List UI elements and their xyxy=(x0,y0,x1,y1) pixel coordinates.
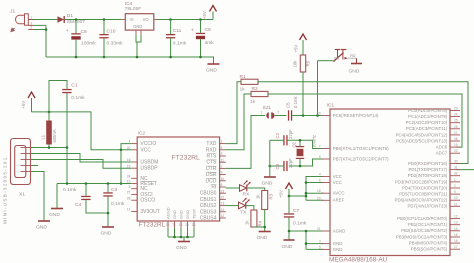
resistor R2 1k xyxy=(250,86,268,105)
svg-text:P$2: P$2 xyxy=(350,54,356,58)
svg-text:28: 28 xyxy=(127,196,131,200)
svg-text:25: 25 xyxy=(166,223,170,227)
svg-text:9: 9 xyxy=(221,171,223,175)
wire J1 pins 2,3 to ground drop xyxy=(33,25,46,57)
svg-text:100mk: 100mk xyxy=(81,41,96,47)
svg-text:GND: GND xyxy=(101,231,112,237)
svg-text:FT232RL: FT232RL xyxy=(172,155,201,162)
svg-text:18: 18 xyxy=(317,189,321,193)
wire crystal caps to ground xyxy=(269,140,271,176)
LED TX xyxy=(239,198,250,216)
svg-text:IC2: IC2 xyxy=(138,131,146,137)
svg-text:CBUS2: CBUS2 xyxy=(200,203,217,209)
svg-text:ADC7: ADC7 xyxy=(436,151,448,156)
svg-text:OSCO: OSCO xyxy=(140,198,155,204)
svg-text:1: 1 xyxy=(30,16,32,20)
svg-text:DSR: DSR xyxy=(206,172,217,178)
wire IC2 to RX LED xyxy=(226,187,240,189)
svg-text:PC6(/RESET/PCINT14): PC6(/RESET/PCINT14) xyxy=(333,113,379,118)
svg-text:25: 25 xyxy=(454,119,458,123)
svg-text:R5: R5 xyxy=(306,60,311,66)
svg-text:R2: R2 xyxy=(252,86,259,92)
ground rail under power section xyxy=(46,57,214,64)
svg-text:X1: X1 xyxy=(19,192,25,198)
svg-text:PB6(XTAL1/TOSC1/PCINT6): PB6(XTAL1/TOSC1/PCINT6) xyxy=(333,146,389,151)
crystal Q2 16MHz xyxy=(291,135,316,166)
svg-text:10: 10 xyxy=(221,177,225,181)
op-amp/IC IC2 FT232RL box xyxy=(137,137,219,221)
svg-text:0.33mk: 0.33mk xyxy=(107,40,124,46)
wire USB ID stub xyxy=(31,165,38,167)
svg-text:4mk: 4mk xyxy=(205,40,215,46)
capacitor C10 0.33mk xyxy=(99,20,123,58)
svg-text:+: + xyxy=(191,27,194,32)
svg-text:1: 1 xyxy=(221,140,223,144)
svg-text:CBUS3: CBUS3 xyxy=(200,209,217,215)
svg-text:8: 8 xyxy=(129,185,131,189)
svg-text:PC3(ADC3/PCINT11): PC3(ADC3/PCINT11) xyxy=(406,126,448,131)
junctions on ground rail xyxy=(75,56,78,59)
ground symbol (IC1 analog) xyxy=(282,240,295,250)
svg-text:DCD: DCD xyxy=(206,178,217,184)
svg-text:500mA: 500mA xyxy=(52,129,57,142)
svg-text:+5V: +5V xyxy=(279,190,284,198)
inductor L1 500mA (ferrite bead) xyxy=(41,112,58,148)
svg-text:TEST: TEST xyxy=(192,208,197,219)
svg-text:GND: GND xyxy=(185,210,190,219)
svg-text:16MHz: 16MHz xyxy=(311,135,316,148)
IC1 MEGA48/88/168-AU left pins xyxy=(321,116,330,250)
svg-text:13: 13 xyxy=(221,202,225,206)
svg-text:3V3OUT: 3V3OUT xyxy=(140,209,159,215)
svg-text:USBDP: USBDP xyxy=(140,166,158,172)
wire +5V rail to IC2 supply xyxy=(32,112,132,184)
svg-text:C1: C1 xyxy=(71,83,78,89)
svg-text:PB3(MOSI/OC2A/PCINT3): PB3(MOSI/OC2A/PCINT3) xyxy=(396,234,448,239)
svg-text:C7: C7 xyxy=(293,208,300,214)
svg-text:24: 24 xyxy=(127,174,131,178)
LED RX xyxy=(240,180,251,197)
svg-text:J1: J1 xyxy=(10,9,15,15)
svg-text:SJ1: SJ1 xyxy=(263,105,272,111)
svg-text:C10: C10 xyxy=(107,28,116,34)
svg-text:19: 19 xyxy=(454,143,458,147)
svg-text:21: 21 xyxy=(185,223,189,227)
wire USB shield/GND drop xyxy=(31,172,44,221)
junction R5 on reset row xyxy=(302,114,305,117)
junction C11 tap xyxy=(169,18,172,21)
svg-text:DTR: DTR xyxy=(206,166,217,172)
svg-text:20: 20 xyxy=(127,146,131,150)
svg-text:23: 23 xyxy=(454,107,458,111)
voltage regulator IC4 78L05F xyxy=(122,1,158,34)
IC2 bottom pins AGND/GND/TEST xyxy=(168,221,194,228)
svg-text:16: 16 xyxy=(454,239,458,243)
ground symbol (C3) xyxy=(101,227,115,237)
svg-text:PB0(ICP1/CLKO/PCINT0): PB0(ICP1/CLKO/PCINT0) xyxy=(397,216,447,221)
svg-text:C9: C9 xyxy=(205,27,212,33)
junctions crystal xyxy=(299,139,302,142)
svg-text:8: 8 xyxy=(319,155,321,159)
wire IC2 bottom ground bus xyxy=(168,228,194,241)
svg-text:C2: C2 xyxy=(275,132,280,138)
svg-text:4: 4 xyxy=(319,173,321,177)
resistor R1 1k xyxy=(240,74,259,93)
junction S1 on reset row xyxy=(316,114,319,117)
svg-text:IC1: IC1 xyxy=(327,103,335,109)
svg-text:D1: D1 xyxy=(67,13,74,19)
capacitor C2 22pF xyxy=(275,129,293,146)
switch S1 (reset pushbutton) xyxy=(318,50,357,116)
svg-text:PD6(AIN0/OC0A/PCINT22): PD6(AIN0/OC0A/PCINT22) xyxy=(395,198,448,203)
svg-text:AVCC: AVCC xyxy=(333,191,345,196)
svg-text:GND: GND xyxy=(333,247,343,252)
capacitor C3 0.1mk xyxy=(103,184,125,227)
IC IC1 MEGA48/88/168-AU box xyxy=(330,109,450,256)
svg-text:6: 6 xyxy=(221,183,223,187)
svg-text:29: 29 xyxy=(317,112,321,116)
capacitor C11 0.1mk xyxy=(166,20,187,58)
svg-text:PD5(T1/OC0B/PCINT21): PD5(T1/OC0B/PCINT21) xyxy=(399,192,448,197)
svg-text:VCC: VCC xyxy=(140,147,151,153)
svg-text:27: 27 xyxy=(127,191,131,195)
diode D1 SM4007 xyxy=(58,13,86,25)
junction C9 tap xyxy=(199,18,202,21)
svg-text:28: 28 xyxy=(454,137,458,141)
svg-text:2: 2 xyxy=(221,165,223,169)
junction L1 top / C1 branch xyxy=(48,111,51,114)
capacitor C1 0.1mk xyxy=(49,81,85,184)
wire IC1 PD1 exits right edge xyxy=(456,169,474,171)
svg-text:12: 12 xyxy=(454,215,458,219)
svg-text:PB4(MISO/PCINT4): PB4(MISO/PCINT4) xyxy=(409,241,448,246)
svg-text:FT232RL: FT232RL xyxy=(139,222,166,229)
svg-text:19: 19 xyxy=(127,180,131,184)
ground symbol (crystal) xyxy=(262,177,276,187)
+5V supply arrow (R5) xyxy=(294,34,307,55)
svg-text:3: 3 xyxy=(319,240,321,244)
ground symbol (IC2) xyxy=(176,242,190,252)
svg-text:C11: C11 xyxy=(173,28,182,34)
svg-text:22pF: 22pF xyxy=(288,129,293,139)
svg-text:31: 31 xyxy=(454,166,458,170)
wire R2 to IC1 ADC6 (second long wire) xyxy=(268,94,462,147)
svg-text:0.1mk: 0.1mk xyxy=(63,187,77,193)
svg-text:VCCIO: VCCIO xyxy=(140,141,156,147)
svg-text:R3: R3 xyxy=(268,193,273,199)
ground symbol (rail left) xyxy=(49,209,63,219)
wire IC2 TXD up to R1 xyxy=(226,82,241,144)
svg-text:MEGA48/88/168-AU: MEGA48/88/168-AU xyxy=(329,257,388,263)
svg-text:TXD: TXD xyxy=(206,141,216,147)
connector X1 MINI-USB xyxy=(11,139,31,185)
wire IC4 VO to +5V rail xyxy=(158,19,214,21)
svg-text:CBUS0: CBUS0 xyxy=(200,191,217,197)
svg-text:C6: C6 xyxy=(81,29,88,35)
svg-text:1k: 1k xyxy=(240,87,246,93)
svg-text:TX: TX xyxy=(240,210,247,216)
svg-text:30: 30 xyxy=(454,160,458,164)
svg-text:PC1(ADC1/PCINT9): PC1(ADC1/PCINT9) xyxy=(408,114,448,119)
svg-text:RI: RI xyxy=(211,185,216,191)
svg-text:2: 2 xyxy=(30,26,32,30)
svg-text:GND: GND xyxy=(179,210,184,219)
svg-text:0.1mk: 0.1mk xyxy=(293,95,298,108)
svg-text:15: 15 xyxy=(454,233,458,237)
resistor R3 1k xyxy=(256,191,274,210)
svg-text:GND: GND xyxy=(333,241,343,246)
resistor R5 10k (reset pullup) xyxy=(293,55,311,116)
svg-text:7: 7 xyxy=(319,145,321,149)
svg-text:27: 27 xyxy=(454,131,458,135)
svg-text:15: 15 xyxy=(127,164,131,168)
junction C1 bottom on VBUS xyxy=(66,146,69,149)
svg-text:VCC: VCC xyxy=(333,174,342,179)
svg-text:18: 18 xyxy=(179,223,183,227)
svg-text:PD3(INT1/OC2B/PCINT19): PD3(INT1/OC2B/PCINT19) xyxy=(395,179,448,184)
svg-text:USBDM: USBDM xyxy=(140,160,158,166)
junction L1 bottom on VBUS xyxy=(48,146,51,149)
ground symbol (LEDs) xyxy=(257,232,271,242)
svg-text:4: 4 xyxy=(129,140,131,144)
wire AGND/GND net xyxy=(289,231,323,249)
overbars on active-low pin names xyxy=(140,154,216,185)
capacitor C9 4mk (electrolytic) xyxy=(191,20,214,58)
svg-text:GND: GND xyxy=(206,68,217,74)
resistor R4 1k xyxy=(245,210,263,227)
wire R3/R4 to ground xyxy=(254,210,265,232)
IC1 right pins xyxy=(450,111,460,250)
+5V supply arrow (IC1) xyxy=(279,183,293,198)
svg-text:17: 17 xyxy=(127,208,131,212)
ground drop left of rail xyxy=(56,184,58,209)
svg-text:1: 1 xyxy=(454,178,456,182)
wire XTAL1 row xyxy=(270,139,284,141)
svg-text:5: 5 xyxy=(221,146,223,150)
junction C10 tap xyxy=(103,18,106,21)
svg-text:RTS: RTS xyxy=(206,154,217,160)
svg-text:PB1(OC1A/PCINT1): PB1(OC1A/PCINT1) xyxy=(408,222,448,227)
ground symbol (USB) xyxy=(36,221,50,231)
svg-text:3: 3 xyxy=(221,152,223,156)
svg-text:R4: R4 xyxy=(258,220,263,226)
svg-text:VO: VO xyxy=(143,17,149,22)
svg-text:PC5(ADC5/SCL/PCINT13): PC5(ADC5/SCL/PCINT13) xyxy=(396,138,448,143)
svg-text:2: 2 xyxy=(454,184,456,188)
svg-text:VI: VI xyxy=(130,17,134,22)
wire J1 pin1 to D1 xyxy=(33,19,58,21)
wire IC2 to TX LED xyxy=(226,205,239,207)
wire IC2 RXD up to R2 xyxy=(226,94,251,150)
svg-text:22: 22 xyxy=(454,149,458,153)
capacitor C4 0.1mk xyxy=(63,184,108,214)
svg-text:20: 20 xyxy=(317,196,321,200)
svg-text:PC2(ADC2/PCINT10): PC2(ADC2/PCINT10) xyxy=(406,120,448,125)
svg-text:26: 26 xyxy=(454,125,458,129)
svg-text:GND: GND xyxy=(36,225,47,231)
svg-text:C4: C4 xyxy=(75,202,82,208)
svg-text:1: 1 xyxy=(261,111,263,115)
connector J1 (DC power jack) xyxy=(11,14,33,32)
wire VBUS row (X1 pin1 to L1/C1) xyxy=(31,147,67,149)
svg-text:14: 14 xyxy=(221,208,225,212)
svg-text:32: 32 xyxy=(454,172,458,176)
capacitor C5 0.1mk (reset series cap) xyxy=(275,95,324,120)
svg-text:24: 24 xyxy=(454,113,458,117)
svg-text:14: 14 xyxy=(454,227,458,231)
svg-text:0.1mk: 0.1mk xyxy=(173,40,187,46)
svg-text:7: 7 xyxy=(172,223,174,227)
capacitor C6 100mk (electrolytic) xyxy=(66,20,96,58)
junction C4 tap xyxy=(85,182,88,185)
wire R1 to IC1 PD0 (long top wire) xyxy=(258,82,468,164)
wire RX LED to R3 xyxy=(247,188,265,191)
svg-text:RXD: RXD xyxy=(206,147,217,153)
svg-text:L1: L1 xyxy=(41,134,46,139)
svg-text:16: 16 xyxy=(127,158,131,162)
svg-text:GND: GND xyxy=(49,212,60,218)
svg-text:ADC6: ADC6 xyxy=(436,145,448,150)
+5V supply arrow (top) xyxy=(202,6,217,20)
svg-text:78L05F: 78L05F xyxy=(125,6,142,12)
svg-text:PB5(SCK/PCINT5): PB5(SCK/PCINT5) xyxy=(411,247,448,252)
svg-text:VCC: VCC xyxy=(333,180,342,185)
svg-text:6: 6 xyxy=(319,179,321,183)
svg-text:26: 26 xyxy=(192,223,196,227)
svg-text:11: 11 xyxy=(454,202,458,206)
svg-text:17: 17 xyxy=(454,245,458,249)
svg-text:0.1mk: 0.1mk xyxy=(293,220,307,226)
svg-text:C5: C5 xyxy=(286,102,291,108)
svg-text:PD2(INT0/PCINT18): PD2(INT0/PCINT18) xyxy=(408,173,448,178)
svg-text:GND: GND xyxy=(282,244,293,250)
svg-text:10: 10 xyxy=(454,196,458,200)
svg-text:C8: C8 xyxy=(275,163,280,169)
svg-text:0.1mk: 0.1mk xyxy=(111,201,125,207)
svg-text:0.1mk: 0.1mk xyxy=(71,95,85,101)
svg-text:GND: GND xyxy=(133,24,142,29)
junction C1 bottom to rail xyxy=(66,182,69,185)
svg-text:AGND: AGND xyxy=(166,207,171,219)
svg-text:12: 12 xyxy=(221,214,225,218)
wire IC2 DTR up to SJ1 xyxy=(226,116,265,169)
ground symbol (S1) xyxy=(349,64,363,75)
svg-text:MINI-USB-32005-201: MINI-USB-32005-201 xyxy=(3,156,8,224)
svg-text:AREF: AREF xyxy=(333,198,345,203)
svg-text:PC0(ADC0/PCINT8): PC0(ADC0/PCINT8) xyxy=(408,108,448,113)
svg-text:C3: C3 xyxy=(111,187,118,193)
wire XTAL2 row xyxy=(270,165,284,167)
svg-text:+5V: +5V xyxy=(21,101,26,109)
svg-text:GND: GND xyxy=(176,245,187,251)
svg-text:22: 22 xyxy=(221,196,225,200)
svg-text:2: 2 xyxy=(278,111,280,115)
svg-text:GND: GND xyxy=(172,210,177,219)
svg-text:GND: GND xyxy=(257,235,268,241)
svg-text:AGND: AGND xyxy=(333,228,345,233)
wire IC4 GND pins join and drop to ground rail xyxy=(136,34,141,57)
svg-text:PD7(AIN1/PCINT23): PD7(AIN1/PCINT23) xyxy=(408,204,448,209)
svg-text:R1: R1 xyxy=(240,74,247,80)
svg-text:PD1(TXD/PCINT17): PD1(TXD/PCINT17) xyxy=(409,167,448,172)
svg-text:5: 5 xyxy=(319,245,321,249)
capacitor C8 22pF xyxy=(275,158,293,171)
svg-text:11: 11 xyxy=(221,158,225,162)
svg-text:PD4(T0/XCK/PCINT20): PD4(T0/XCK/PCINT20) xyxy=(402,185,448,190)
svg-text:+: + xyxy=(66,28,69,33)
svg-text:GND: GND xyxy=(262,181,273,187)
wire +5V to VCC/AVCC/AREF pins xyxy=(289,177,323,201)
svg-text:9: 9 xyxy=(454,190,456,194)
wire USB D- to IC2 USBDM xyxy=(31,154,131,163)
wire TX LED to R4 xyxy=(246,206,254,210)
junction C4 line joins C3 riser xyxy=(107,212,110,215)
capacitor C7 0.1mk xyxy=(284,196,307,231)
svg-text:1k: 1k xyxy=(250,99,256,105)
ground symbol (power section) xyxy=(206,64,220,74)
IC2 right pins xyxy=(220,144,226,218)
svg-text:10k: 10k xyxy=(293,60,298,68)
wire USB D+ to IC2 USBDP xyxy=(31,160,131,169)
junction C3 riser on rail xyxy=(107,182,110,185)
svg-text:GND: GND xyxy=(349,69,360,75)
wire RESET rail (FT232 RESET / C4 net) xyxy=(57,183,131,185)
svg-text:Q2: Q2 xyxy=(291,141,296,147)
wire D1 to IC4 VI (+raw rail) xyxy=(65,19,122,21)
svg-text:CBUS4: CBUS4 xyxy=(200,216,217,222)
svg-text:PD0(RXD/PCINT16): PD0(RXD/PCINT16) xyxy=(408,161,448,166)
+5V supply arrow (USB rail) xyxy=(21,92,35,112)
svg-text:P$1: P$1 xyxy=(334,57,340,61)
solder jumper SJ1 xyxy=(261,105,280,119)
node junction J1 ground xyxy=(45,28,48,31)
svg-text:21: 21 xyxy=(317,227,321,231)
junction VCC branch xyxy=(120,149,123,152)
svg-text:+5V: +5V xyxy=(294,45,299,53)
IC2 FT232RL left pins xyxy=(131,144,137,212)
svg-text:+5V: +5V xyxy=(202,11,207,19)
svg-text:CBUS1: CBUS1 xyxy=(200,197,217,203)
svg-text:RX: RX xyxy=(243,191,251,197)
svg-text:22pF: 22pF xyxy=(288,158,293,168)
svg-text:13: 13 xyxy=(454,221,458,225)
junction C6 tap xyxy=(75,18,78,21)
svg-text:PC4(ADC4/SDA/PCINT12): PC4(ADC4/SDA/PCINT12) xyxy=(396,132,448,137)
svg-text:PB7(XTAL2/TOSC2/PCINT7): PB7(XTAL2/TOSC2/PCINT7) xyxy=(333,156,389,161)
svg-text:23: 23 xyxy=(221,189,225,193)
svg-text:PB2(SS/OC1B/PCINT2): PB2(SS/OC1B/PCINT2) xyxy=(401,228,448,233)
svg-text:CTS: CTS xyxy=(206,160,217,166)
